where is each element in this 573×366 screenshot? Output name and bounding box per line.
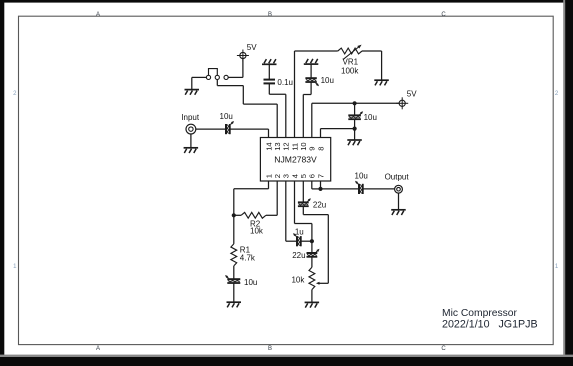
svg-text:11: 11 <box>290 143 299 151</box>
svg-text:Mic Compressor: Mic Compressor <box>442 308 518 319</box>
svg-text:7: 7 <box>316 174 325 178</box>
svg-text:100k: 100k <box>341 67 359 76</box>
svg-text:10k: 10k <box>291 276 305 285</box>
svg-text:8: 8 <box>316 147 325 151</box>
svg-text:3: 3 <box>282 174 291 178</box>
svg-text:A: A <box>96 346 100 352</box>
svg-text:12: 12 <box>282 142 291 150</box>
svg-text:1: 1 <box>264 174 273 178</box>
svg-text:10u: 10u <box>244 278 257 287</box>
svg-text:0.1u: 0.1u <box>277 78 293 87</box>
svg-text:10u: 10u <box>220 112 233 121</box>
svg-text:9: 9 <box>308 147 317 151</box>
svg-text:4: 4 <box>290 174 299 178</box>
svg-text:22u: 22u <box>292 251 305 260</box>
svg-text:C: C <box>441 12 446 18</box>
svg-text:B: B <box>268 346 272 352</box>
svg-text:10u: 10u <box>355 172 368 181</box>
svg-text:6: 6 <box>308 174 317 178</box>
svg-text:10k: 10k <box>250 227 264 236</box>
svg-text:B: B <box>268 12 272 18</box>
svg-text:Output: Output <box>385 172 410 181</box>
svg-text:10u: 10u <box>364 113 377 122</box>
svg-text:5V: 5V <box>407 89 417 98</box>
svg-text:VR1: VR1 <box>343 58 359 67</box>
svg-text:NJM2783V: NJM2783V <box>274 155 317 165</box>
svg-text:5V: 5V <box>247 43 257 52</box>
svg-text:22u: 22u <box>313 201 326 210</box>
svg-text:14: 14 <box>264 142 273 150</box>
svg-text:Input: Input <box>181 113 200 122</box>
svg-text:1u: 1u <box>295 227 304 236</box>
svg-text:2022/1/10 JG1PJB: 2022/1/10 JG1PJB <box>442 318 538 330</box>
svg-text:C: C <box>441 346 446 352</box>
svg-text:A: A <box>96 12 100 18</box>
svg-text:10u: 10u <box>321 76 334 85</box>
svg-text:4.7k: 4.7k <box>240 253 256 262</box>
